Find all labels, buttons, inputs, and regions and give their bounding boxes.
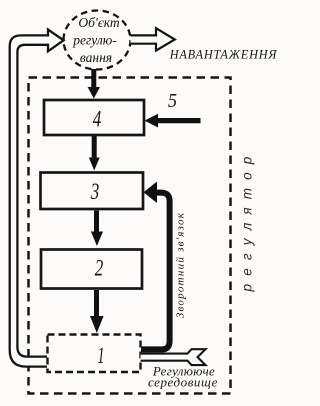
wire: regulating medium input (hollow arrow with swallowtail) [141,349,206,365]
arrow: block 3 to block 2 [91,211,103,247]
arrow: block 4 to block 3 [89,136,100,171]
svg-text:Об'єкт: Об'єкт [78,15,119,30]
wire: load output (hollow arrow to the right of object) [131,28,175,50]
svg-text:вання: вання [80,50,112,65]
block 3 [41,173,144,210]
svg-text:3: 3 [90,179,99,204]
wire: feedback channel to object (hollow outline arrow, left side) [10,30,64,367]
arrow: block 2 to block 1 [90,290,104,333]
block 2 [41,250,142,289]
svg-text:4: 4 [93,107,102,132]
regulator boundary (big dashed rect) [29,78,231,394]
svg-text:середовище: середовище [148,375,218,390]
svg-text:5: 5 [168,91,177,112]
block 1 (dashed) [48,335,141,373]
svg-text:Зворотний зв'язок: Зворотний зв'язок [175,212,187,318]
label Зворотний зв'язок (rotated) [175,212,187,318]
label: Об'єкт регулювання [72,15,120,65]
label Регулююче середовище [148,364,218,390]
svg-text:1: 1 [98,343,105,368]
label НАВАНТАЖЕННЯ [169,48,278,62]
object: dashed ellipse [64,11,131,70]
block 4 [44,100,144,135]
label регулятор (rotated, right side) [240,148,255,292]
arrow: input 5 to block 4 [145,114,201,128]
label 5 [168,91,177,112]
svg-text:регулятор: регулятор [240,148,255,292]
arrow: object to block 4 [88,69,100,99]
svg-text:НАВАНТАЖЕННЯ: НАВАНТАЖЕННЯ [169,48,278,62]
svg-text:2: 2 [95,256,104,281]
wire: feedback line block 1 to block 3 (thick) [141,182,170,350]
svg-text:регулю-: регулю- [72,33,117,48]
